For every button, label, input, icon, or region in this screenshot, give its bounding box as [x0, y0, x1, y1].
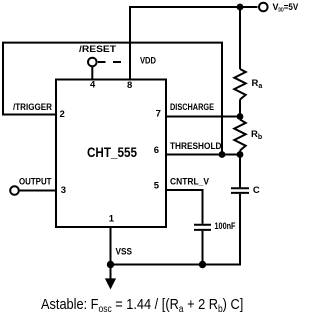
svg-text:CNTRL_V: CNTRL_V [170, 177, 210, 188]
svg-text:100nF: 100nF [215, 221, 236, 232]
svg-text:OUTPUT: OUTPUT [19, 177, 52, 188]
svg-text:VSS: VSS [116, 247, 133, 258]
svg-text:5: 5 [154, 181, 160, 192]
svg-text:Astable: Fosc = 1.44 / [(Ra +: Astable: Fosc = 1.44 / [(Ra + 2 Rb) C] [41, 295, 243, 314]
svg-text:4: 4 [90, 80, 96, 91]
svg-text:6: 6 [154, 145, 159, 156]
svg-text:/RESET: /RESET [79, 44, 116, 55]
svg-text:7: 7 [156, 108, 161, 119]
svg-text:1: 1 [109, 214, 115, 225]
svg-text:2: 2 [60, 109, 65, 120]
svg-text:/TRIGGER: /TRIGGER [13, 102, 52, 113]
svg-text:CHT_555: CHT_555 [87, 144, 137, 160]
svg-text:8: 8 [127, 80, 132, 91]
svg-text:3: 3 [61, 185, 66, 196]
svg-text:VDD=5V: VDD=5V [273, 2, 299, 14]
svg-text:THRESHOLD: THRESHOLD [170, 141, 222, 152]
svg-text:C: C [253, 185, 260, 196]
svg-text:DISCHARGE: DISCHARGE [170, 102, 214, 113]
svg-text:VDD: VDD [140, 56, 156, 67]
